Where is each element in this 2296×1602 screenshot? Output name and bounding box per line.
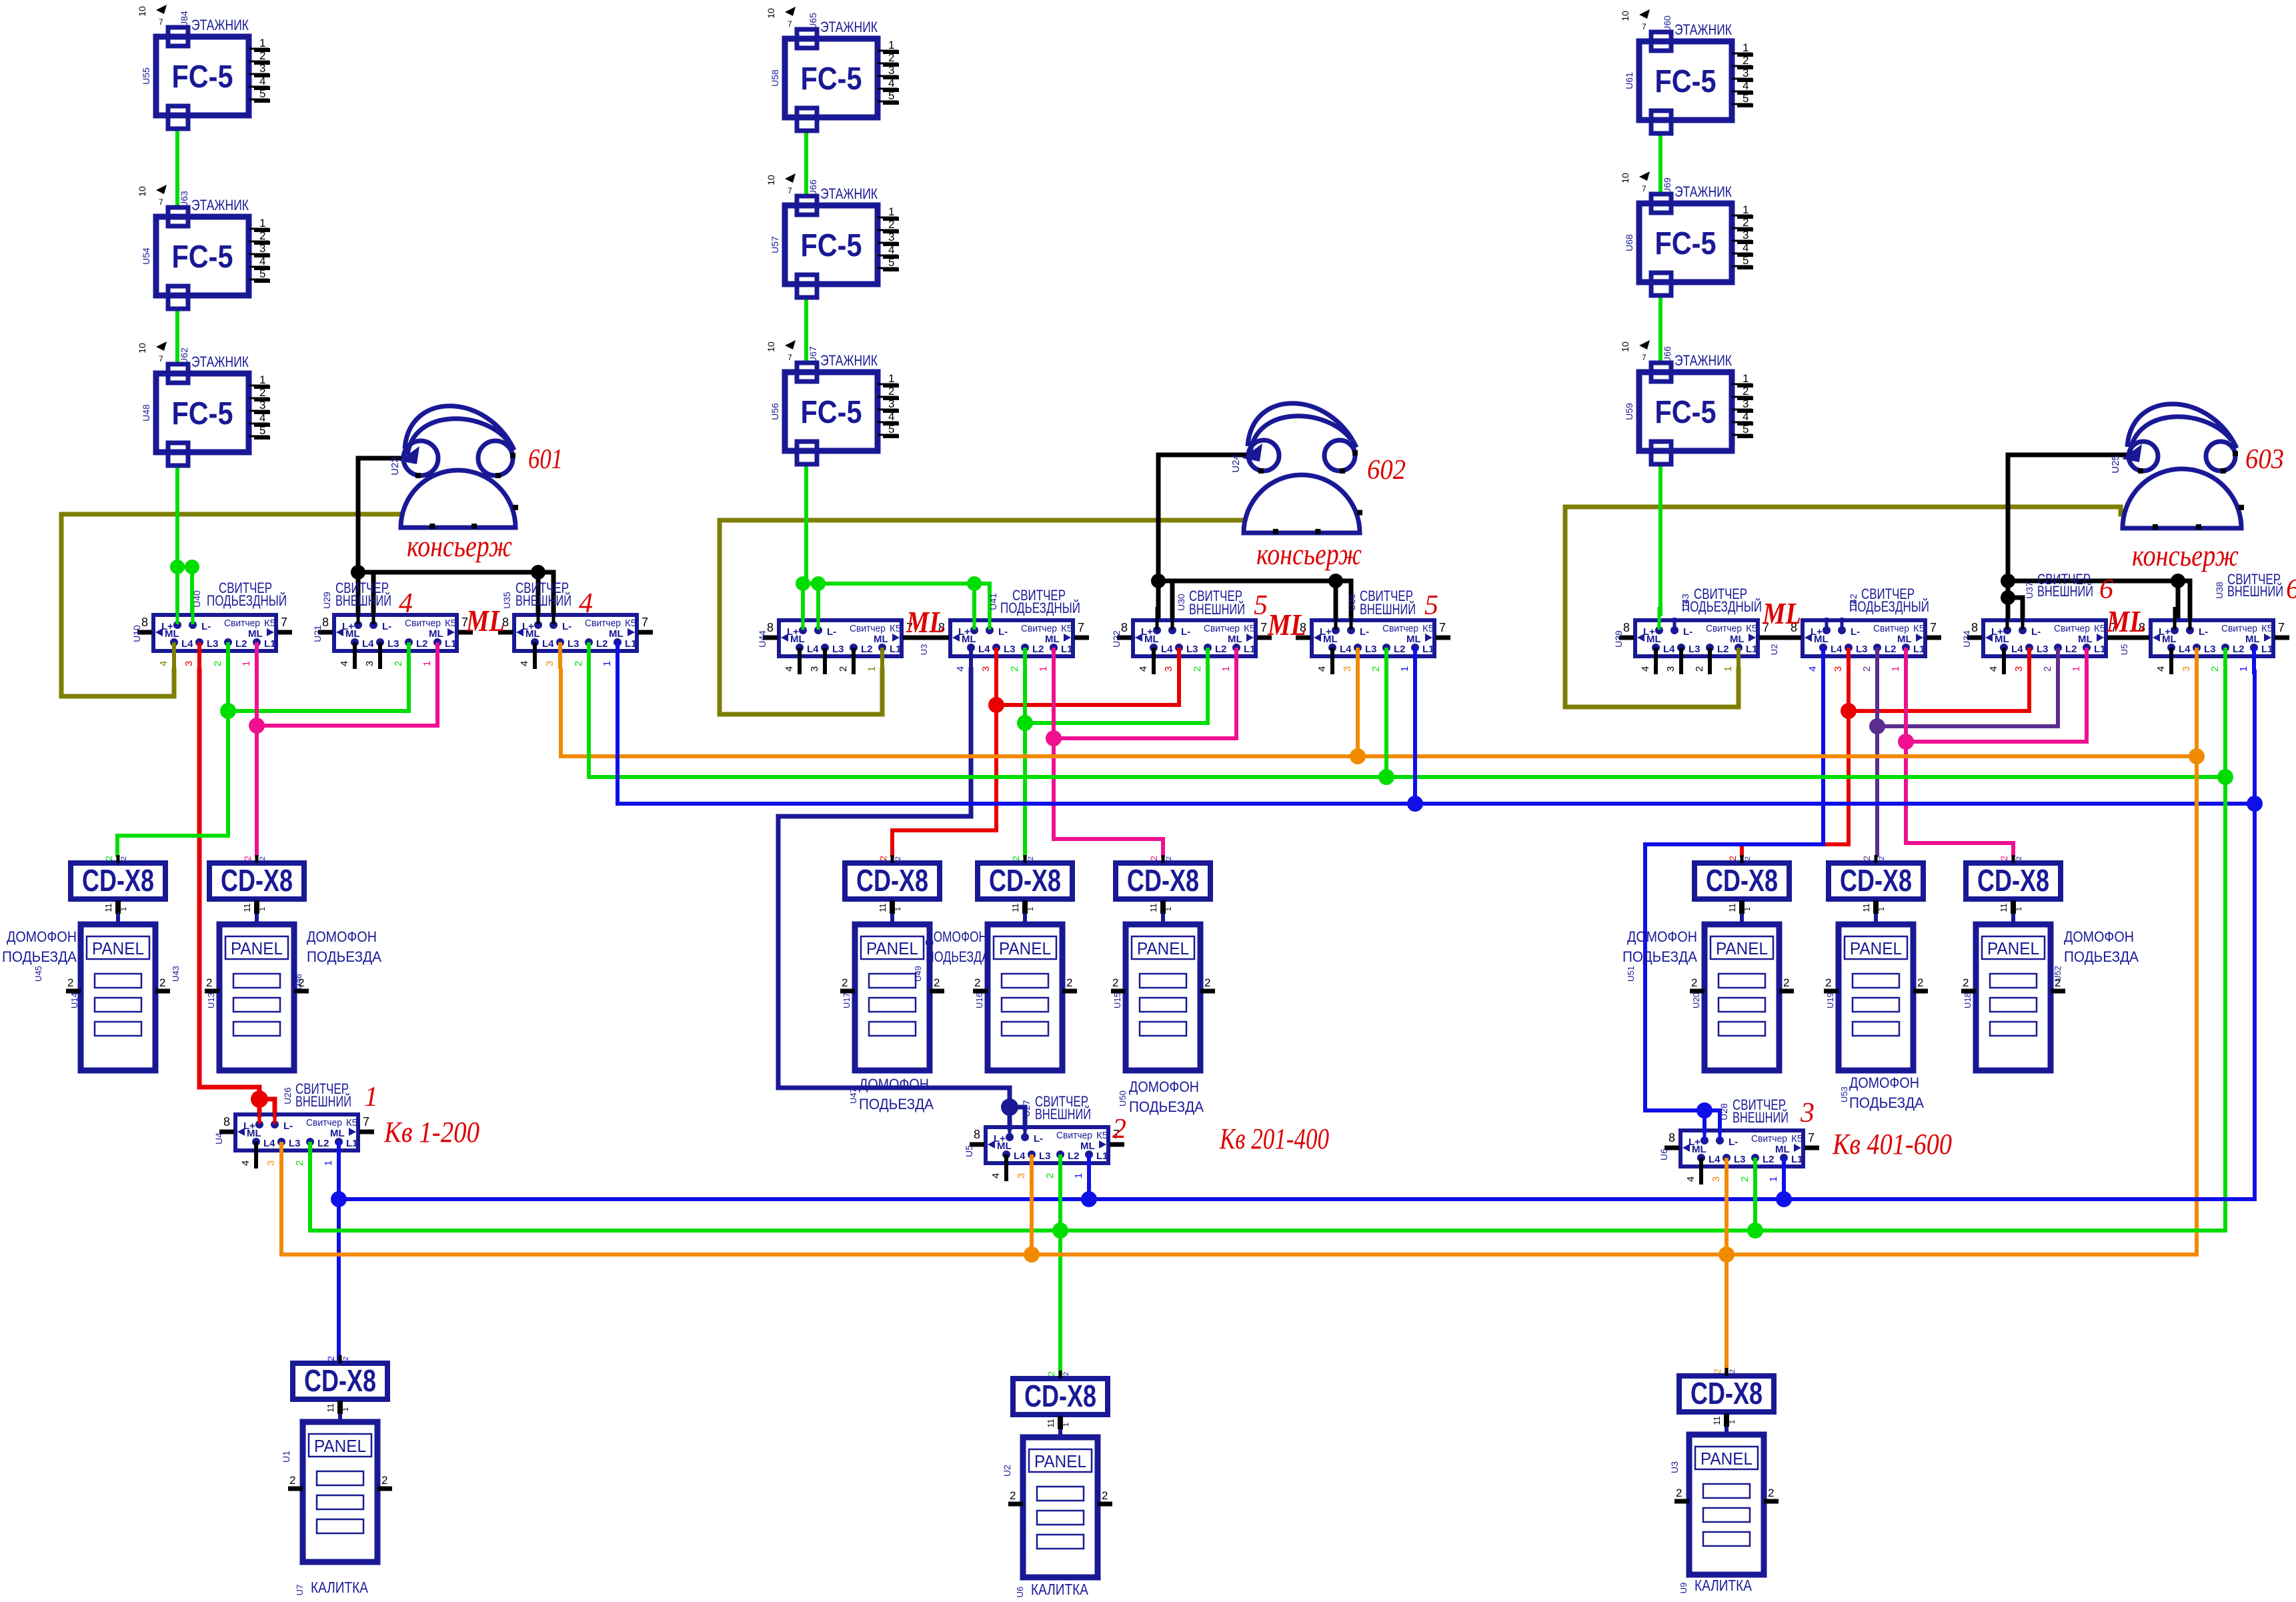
- svg-text:2: 2: [325, 1356, 336, 1361]
- svg-text:2: 2: [934, 976, 940, 989]
- svg-text:10: 10: [766, 8, 776, 19]
- svg-text:5: 5: [1743, 423, 1749, 436]
- svg-text:3: 3: [1743, 397, 1749, 410]
- svg-text:PANEL: PANEL: [999, 938, 1051, 958]
- svg-text:U42: U42: [1848, 594, 1859, 611]
- svg-text:L3: L3: [1688, 644, 1700, 655]
- svg-text:L1: L1: [625, 638, 637, 650]
- svg-text:7: 7: [788, 353, 792, 362]
- svg-text:4: 4: [1743, 410, 1749, 423]
- svg-text:U49: U49: [913, 966, 923, 982]
- svg-text:5: 5: [259, 87, 265, 100]
- svg-text:2: 2: [120, 856, 128, 860]
- svg-text:CD-X8: CD-X8: [856, 863, 928, 898]
- svg-text:2: 2: [1768, 1487, 1774, 1499]
- svg-text:L2: L2: [1763, 1154, 1775, 1165]
- svg-text:1: 1: [323, 1160, 334, 1166]
- svg-text:Свитчер: Свитчер: [1204, 623, 1240, 634]
- svg-text:PANEL: PANEL: [314, 1436, 366, 1456]
- svg-text:U48: U48: [141, 404, 151, 422]
- svg-text:L-: L-: [1181, 626, 1190, 638]
- svg-text:2: 2: [1743, 216, 1749, 229]
- svg-text:3: 3: [2181, 666, 2192, 672]
- svg-text:2: 2: [1102, 1489, 1108, 1502]
- svg-text:ML: ML: [165, 628, 179, 640]
- svg-text:8: 8: [1668, 1131, 1675, 1144]
- svg-text:L3: L3: [1734, 1154, 1746, 1165]
- svg-text:2: 2: [289, 1474, 295, 1487]
- svg-text:FC-5: FC-5: [1655, 226, 1716, 261]
- svg-text:Кв 1-200: Кв 1-200: [383, 1116, 479, 1148]
- svg-text:L1: L1: [445, 638, 457, 650]
- svg-text:3: 3: [364, 661, 375, 666]
- svg-text:3: 3: [2013, 666, 2025, 672]
- svg-text:ML: ML: [1045, 634, 1060, 645]
- svg-text:7: 7: [281, 616, 287, 629]
- svg-text:CD-X8: CD-X8: [221, 863, 293, 898]
- svg-text:7: 7: [1260, 621, 1267, 634]
- svg-text:1: 1: [888, 39, 894, 51]
- svg-text:2: 2: [1044, 1173, 1056, 1178]
- svg-text:1: 1: [888, 205, 894, 218]
- svg-text:PANEL: PANEL: [866, 938, 918, 958]
- svg-text:3: 3: [259, 399, 265, 412]
- svg-text:ML: ML: [1144, 634, 1159, 645]
- svg-text:FC-5: FC-5: [801, 395, 862, 430]
- svg-text:ВНЕШНИЙ: ВНЕШНИЙ: [335, 592, 391, 609]
- svg-text:ПОДЬЕЗДА: ПОДЬЕЗДА: [2, 948, 77, 965]
- svg-text:2: 2: [342, 1357, 350, 1361]
- svg-text:7: 7: [788, 19, 792, 29]
- svg-text:2: 2: [888, 385, 894, 397]
- svg-text:U25: U25: [2110, 455, 2121, 474]
- svg-text:ДОМОФОН: ДОМОФОН: [1627, 928, 1697, 945]
- svg-text:4: 4: [1988, 666, 1999, 672]
- svg-text:6: 6: [2099, 574, 2113, 605]
- svg-text:L2: L2: [1032, 644, 1044, 655]
- svg-text:консьерж: консьерж: [2132, 539, 2239, 572]
- svg-text:U9: U9: [1678, 1583, 1688, 1594]
- svg-text:ПОДЬЕЗДА: ПОДЬЕЗДА: [2064, 948, 2139, 965]
- svg-text:11: 11: [325, 1403, 335, 1413]
- svg-text:ПОДЬЕЗДНЫЙ: ПОДЬЕЗДНЫЙ: [1682, 598, 1762, 615]
- svg-text:2: 2: [878, 856, 888, 861]
- svg-text:2: 2: [2042, 666, 2053, 672]
- svg-text:ML: ML: [525, 628, 540, 640]
- svg-text:4: 4: [990, 1173, 1002, 1178]
- svg-text:ЭТАЖНИК: ЭТАЖНИК: [820, 19, 878, 35]
- svg-text:ML: ML: [1267, 608, 1306, 642]
- svg-text:1: 1: [1878, 907, 1886, 911]
- svg-text:ЭТАЖНИК: ЭТАЖНИК: [820, 352, 878, 369]
- svg-text:ML: ML: [247, 1128, 261, 1139]
- svg-text:L-: L-: [201, 621, 211, 632]
- svg-text:1: 1: [1743, 41, 1749, 54]
- svg-text:U18: U18: [1963, 992, 1973, 1008]
- svg-text:FC-5: FC-5: [801, 228, 862, 263]
- svg-text:8: 8: [1623, 621, 1630, 634]
- svg-text:2: 2: [1676, 1487, 1682, 1499]
- svg-text:ML: ML: [790, 634, 805, 645]
- svg-text:2: 2: [1743, 385, 1749, 397]
- svg-text:КАЛИТКА: КАЛИТКА: [311, 1579, 369, 1596]
- svg-text:U13: U13: [206, 992, 216, 1008]
- svg-text:PANEL: PANEL: [1137, 938, 1189, 958]
- svg-text:4: 4: [158, 661, 169, 666]
- svg-text:L4: L4: [1663, 644, 1675, 655]
- svg-text:U4: U4: [213, 1132, 224, 1144]
- svg-text:2: 2: [1744, 856, 1752, 860]
- svg-text:4: 4: [888, 77, 894, 89]
- svg-text:L-: L-: [562, 621, 571, 632]
- svg-text:3: 3: [544, 661, 555, 666]
- svg-text:10: 10: [766, 341, 776, 352]
- svg-text:КАЛИТКА: КАЛИТКА: [1694, 1577, 1753, 1594]
- svg-text:CD-X8: CD-X8: [82, 863, 154, 898]
- svg-text:PANEL: PANEL: [1700, 1449, 1753, 1469]
- svg-text:7: 7: [159, 17, 163, 27]
- svg-text:8: 8: [1121, 621, 1128, 634]
- svg-text:ML: ML: [2078, 634, 2093, 645]
- svg-text:U1: U1: [281, 1451, 291, 1463]
- svg-text:7: 7: [788, 186, 792, 195]
- svg-text:ЭТАЖНИК: ЭТАЖНИК: [1674, 352, 1732, 369]
- svg-text:2: 2: [1112, 1114, 1126, 1144]
- svg-text:2: 2: [259, 856, 267, 860]
- svg-text:U46: U46: [293, 974, 303, 990]
- svg-text:L3: L3: [2204, 644, 2216, 655]
- svg-text:U14: U14: [69, 992, 79, 1008]
- svg-text:L1: L1: [1096, 1150, 1108, 1162]
- svg-text:ML: ML: [2162, 634, 2177, 645]
- svg-text:L1: L1: [1244, 644, 1256, 655]
- svg-text:11: 11: [1712, 1416, 1722, 1425]
- svg-text:Свитчер: Свитчер: [585, 618, 621, 629]
- svg-text:4: 4: [2155, 666, 2167, 672]
- svg-text:U20: U20: [1691, 992, 1701, 1008]
- svg-text:PANEL: PANEL: [1716, 938, 1768, 958]
- svg-text:7: 7: [1439, 621, 1446, 634]
- svg-text:2: 2: [1917, 976, 1923, 989]
- svg-text:2: 2: [381, 1474, 387, 1487]
- svg-text:FC-5: FC-5: [1655, 64, 1716, 99]
- svg-text:7: 7: [1078, 621, 1084, 634]
- svg-text:L4: L4: [181, 638, 193, 650]
- svg-text:К5: К5: [1244, 623, 1255, 634]
- svg-text:1: 1: [1744, 907, 1752, 911]
- svg-text:К5: К5: [2094, 623, 2105, 634]
- svg-text:U84: U84: [179, 11, 189, 28]
- svg-text:ML: ML: [1995, 634, 2009, 645]
- svg-text:U61: U61: [1624, 72, 1634, 89]
- svg-text:10: 10: [137, 6, 147, 17]
- svg-text:U21: U21: [312, 625, 323, 642]
- svg-text:ML: ML: [429, 628, 443, 640]
- svg-text:ML: ML: [330, 1128, 345, 1139]
- svg-text:U55: U55: [141, 67, 151, 85]
- svg-text:4: 4: [1685, 1176, 1696, 1182]
- svg-text:5: 5: [1424, 590, 1438, 621]
- svg-text:2: 2: [1066, 976, 1072, 989]
- svg-text:PANEL: PANEL: [92, 938, 144, 958]
- svg-text:2: 2: [842, 976, 848, 989]
- svg-text:ML: ML: [248, 628, 263, 640]
- svg-text:L1: L1: [1746, 644, 1758, 655]
- svg-text:L4: L4: [1014, 1150, 1026, 1162]
- svg-text:CD-X8: CD-X8: [989, 863, 1061, 898]
- svg-text:2: 2: [1963, 976, 1969, 989]
- svg-text:11: 11: [1046, 1419, 1056, 1428]
- svg-text:ВНЕШНИЙ: ВНЕШНИЙ: [1189, 601, 1245, 618]
- svg-text:2: 2: [1861, 856, 1872, 861]
- svg-text:2: 2: [1743, 54, 1749, 67]
- svg-text:2: 2: [1165, 856, 1173, 860]
- svg-text:ВНЕШНИЙ: ВНЕШНИЙ: [1035, 1106, 1091, 1122]
- svg-text:Кв 401-600: Кв 401-600: [1832, 1128, 1952, 1160]
- svg-text:1: 1: [259, 373, 265, 386]
- svg-text:Свитчер: Свитчер: [1751, 1133, 1787, 1144]
- svg-text:7: 7: [1642, 353, 1646, 362]
- svg-text:ВНЕШНИЙ: ВНЕШНИЙ: [1733, 1109, 1789, 1126]
- svg-text:FC-5: FC-5: [172, 239, 233, 275]
- svg-text:U15: U15: [1112, 992, 1122, 1008]
- svg-text:К5: К5: [1791, 1133, 1803, 1144]
- svg-text:L1: L1: [2261, 644, 2273, 655]
- svg-text:ДОМОФОН: ДОМОФОН: [7, 928, 77, 945]
- svg-text:L4: L4: [807, 644, 819, 655]
- svg-text:10: 10: [137, 343, 147, 353]
- svg-text:L1: L1: [2094, 644, 2106, 655]
- svg-text:3: 3: [1016, 1173, 1027, 1178]
- svg-text:L-: L-: [1729, 1136, 1738, 1148]
- svg-text:4: 4: [1640, 666, 1651, 672]
- svg-text:ML: ML: [1080, 1140, 1095, 1152]
- svg-text:2: 2: [103, 856, 114, 861]
- svg-text:2: 2: [1783, 976, 1789, 989]
- svg-text:PANEL: PANEL: [1034, 1451, 1086, 1471]
- svg-text:ПОДЬЕЗДНЫЙ: ПОДЬЕЗДНЫЙ: [207, 592, 287, 609]
- svg-text:ML: ML: [1646, 634, 1661, 645]
- svg-text:1: 1: [120, 907, 128, 911]
- svg-text:3: 3: [1710, 1176, 1722, 1182]
- svg-text:2: 2: [573, 661, 584, 666]
- svg-text:L3: L3: [2037, 644, 2049, 655]
- svg-text:4: 4: [1743, 241, 1749, 254]
- svg-text:11: 11: [1727, 903, 1737, 912]
- svg-text:11: 11: [1999, 903, 2009, 912]
- svg-text:U30: U30: [1176, 594, 1186, 611]
- svg-text:L3: L3: [387, 638, 399, 650]
- svg-text:ДОМОФОН: ДОМОФОН: [1849, 1074, 1919, 1091]
- svg-text:CD-X8: CD-X8: [1690, 1376, 1763, 1411]
- svg-text:1: 1: [1062, 1423, 1070, 1427]
- svg-text:ПОДЬЕЗДНЫЙ: ПОДЬЕЗДНЫЙ: [1000, 600, 1080, 616]
- svg-text:консьерж: консьерж: [1256, 538, 1362, 571]
- svg-text:1: 1: [259, 217, 265, 229]
- svg-text:ВНЕШНИЙ: ВНЕШНИЙ: [515, 592, 571, 609]
- svg-text:3: 3: [809, 666, 820, 672]
- svg-text:ML: ML: [1762, 596, 1801, 630]
- svg-text:2: 2: [888, 218, 894, 231]
- svg-text:2: 2: [2209, 666, 2221, 672]
- svg-text:2: 2: [1148, 856, 1159, 861]
- svg-text:603: 603: [2245, 444, 2284, 475]
- svg-text:4: 4: [240, 1160, 251, 1166]
- svg-text:601: 601: [528, 444, 563, 475]
- svg-text:3: 3: [1163, 666, 1174, 672]
- svg-text:L2: L2: [416, 638, 428, 650]
- svg-text:К5: К5: [264, 618, 275, 629]
- svg-text:2: 2: [974, 976, 980, 989]
- svg-text:2: 2: [294, 1160, 305, 1166]
- svg-text:2: 2: [1112, 976, 1118, 989]
- svg-text:2: 2: [888, 51, 894, 64]
- svg-text:ВНЕШНИЙ: ВНЕШНИЙ: [2227, 583, 2283, 600]
- svg-text:FC-5: FC-5: [801, 61, 862, 97]
- svg-text:L4: L4: [1708, 1154, 1720, 1165]
- svg-text:U51: U51: [1626, 966, 1636, 982]
- svg-text:ЭТАЖНИК: ЭТАЖНИК: [191, 17, 249, 33]
- svg-text:ML: ML: [345, 628, 360, 640]
- svg-text:CD-X8: CD-X8: [1024, 1379, 1096, 1413]
- svg-text:2: 2: [1729, 1369, 1737, 1373]
- svg-text:3: 3: [259, 242, 265, 255]
- svg-text:L-: L-: [1683, 626, 1692, 638]
- svg-text:ML: ML: [962, 634, 976, 645]
- svg-text:U3: U3: [919, 644, 929, 656]
- svg-text:3: 3: [1833, 666, 1844, 672]
- svg-text:L2: L2: [2233, 644, 2245, 655]
- svg-text:ДОМОФОН: ДОМОФОН: [2064, 928, 2134, 945]
- svg-text:ПОДЬЕЗДА: ПОДЬЕЗДА: [859, 1096, 934, 1112]
- svg-text:L2: L2: [596, 638, 608, 650]
- svg-text:U67: U67: [808, 346, 818, 363]
- svg-text:ML: ML: [1814, 634, 1829, 645]
- svg-text:2: 2: [1691, 976, 1697, 989]
- svg-text:4: 4: [1743, 79, 1749, 92]
- svg-text:4: 4: [519, 661, 530, 666]
- svg-text:ДОМОФОН: ДОМОФОН: [859, 1076, 929, 1092]
- svg-text:К5: К5: [1096, 1130, 1108, 1141]
- svg-text:U37: U37: [2024, 582, 2035, 599]
- svg-text:U68: U68: [1624, 234, 1634, 251]
- svg-text:2: 2: [1694, 666, 1705, 672]
- svg-text:U36: U36: [1346, 594, 1357, 611]
- svg-text:U43: U43: [171, 966, 181, 982]
- svg-text:ЭТАЖНИК: ЭТАЖНИК: [1674, 183, 1732, 200]
- svg-text:ПОДЬЕЗДА: ПОДЬЕЗДА: [926, 948, 990, 965]
- svg-text:L4: L4: [2011, 644, 2023, 655]
- svg-text:3: 3: [265, 1160, 277, 1166]
- svg-text:Свитчер: Свитчер: [224, 618, 260, 629]
- svg-text:ВНЕШНИЙ: ВНЕШНИЙ: [1360, 601, 1416, 618]
- svg-text:1: 1: [1073, 1173, 1084, 1178]
- svg-text:U29: U29: [321, 592, 332, 609]
- svg-text:4: 4: [579, 588, 593, 619]
- svg-text:КАЛИТКА: КАЛИТКА: [1031, 1581, 1089, 1598]
- svg-text:5: 5: [259, 267, 265, 280]
- svg-text:8: 8: [322, 616, 329, 629]
- svg-text:L4: L4: [1340, 644, 1352, 655]
- svg-text:L2: L2: [1394, 644, 1406, 655]
- svg-text:1: 1: [2015, 907, 2023, 911]
- svg-text:CD-X8: CD-X8: [1977, 863, 2049, 898]
- svg-text:U38: U38: [2214, 582, 2225, 599]
- svg-text:FC-5: FC-5: [172, 59, 233, 95]
- svg-text:1: 1: [894, 907, 902, 911]
- svg-text:L1: L1: [346, 1138, 358, 1149]
- svg-text:8: 8: [1971, 621, 1978, 634]
- svg-text:ML: ML: [1897, 634, 1912, 645]
- svg-text:ML: ML: [906, 605, 945, 639]
- svg-text:U47: U47: [848, 1088, 858, 1104]
- svg-text:L3: L3: [1004, 644, 1016, 655]
- svg-text:L4: L4: [978, 644, 990, 655]
- svg-text:L-: L-: [1034, 1133, 1043, 1144]
- svg-text:ML: ML: [609, 628, 624, 640]
- svg-text:ПОДЬЕЗДА: ПОДЬЕЗДА: [307, 948, 381, 965]
- svg-text:U5: U5: [964, 1145, 974, 1157]
- svg-text:Свитчер: Свитчер: [2221, 623, 2257, 634]
- svg-text:ВНЕШНИЙ: ВНЕШНИЙ: [2037, 583, 2093, 600]
- svg-text:L4: L4: [362, 638, 374, 650]
- svg-text:4: 4: [784, 666, 795, 672]
- svg-text:2: 2: [67, 976, 73, 989]
- svg-text:FC-5: FC-5: [172, 396, 233, 432]
- svg-text:5: 5: [888, 89, 894, 102]
- svg-text:L3: L3: [1856, 644, 1868, 655]
- svg-text:ML: ML: [1730, 634, 1745, 645]
- svg-text:L-: L-: [1360, 626, 1369, 638]
- svg-text:2: 2: [1878, 856, 1886, 860]
- svg-text:3: 3: [888, 397, 894, 410]
- svg-text:L3: L3: [1186, 644, 1198, 655]
- svg-text:U27: U27: [1021, 1100, 1032, 1117]
- svg-text:6: 6: [2286, 574, 2296, 605]
- svg-text:1: 1: [364, 1082, 378, 1112]
- svg-text:ЭТАЖНИК: ЭТАЖНИК: [191, 353, 249, 370]
- svg-text:ПОДЬЕЗДА: ПОДЬЕЗДА: [1622, 948, 1697, 965]
- svg-text:U19: U19: [1825, 992, 1835, 1008]
- svg-text:ML: ML: [1775, 1144, 1790, 1155]
- svg-text:Кв 201-400: Кв 201-400: [1219, 1122, 1329, 1155]
- svg-text:Свитчер: Свитчер: [1056, 1130, 1092, 1141]
- svg-text:PANEL: PANEL: [1987, 938, 2039, 958]
- svg-text:3: 3: [1800, 1098, 1815, 1128]
- svg-text:L2: L2: [1215, 644, 1227, 655]
- svg-text:L3: L3: [832, 644, 844, 655]
- svg-text:3: 3: [888, 64, 894, 77]
- svg-text:5: 5: [259, 424, 265, 437]
- svg-text:2: 2: [2015, 856, 2023, 860]
- svg-text:2: 2: [1010, 856, 1021, 861]
- svg-text:U50: U50: [1118, 1090, 1128, 1106]
- svg-text:3: 3: [1665, 666, 1676, 672]
- svg-text:4: 4: [1138, 666, 1149, 672]
- svg-text:U10: U10: [131, 625, 142, 642]
- svg-text:L-: L-: [827, 626, 836, 638]
- svg-text:11: 11: [1010, 903, 1020, 912]
- svg-text:L3: L3: [1039, 1150, 1051, 1162]
- svg-text:U43: U43: [1680, 594, 1690, 611]
- svg-text:ML: ML: [874, 634, 888, 645]
- svg-text:К5: К5: [1422, 623, 1434, 634]
- svg-text:L-: L-: [998, 626, 1008, 638]
- svg-text:1: 1: [1399, 666, 1410, 672]
- svg-text:L2: L2: [861, 644, 873, 655]
- svg-text:U53: U53: [1839, 1086, 1849, 1102]
- svg-text:1: 1: [342, 1407, 350, 1411]
